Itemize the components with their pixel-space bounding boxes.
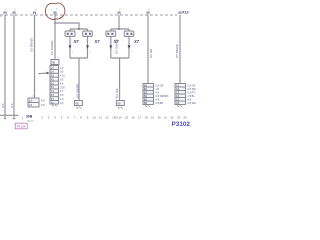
annotation arrow pointing at connector block	[39, 72, 50, 75]
wire labels bottom-left block	[41, 100, 45, 108]
connector X7 d	[124, 31, 134, 36]
wire W1 end tick	[4, 118, 7, 120]
merge bus pair 2	[111, 57, 129, 59]
svg-text:C6: C6	[176, 101, 180, 105]
connector block bottom-left (2 pins)	[28, 98, 39, 107]
svg-text:B1: B1	[144, 84, 148, 88]
svg-text:C5: C5	[176, 98, 180, 102]
svg-text:17: 17	[138, 116, 142, 120]
svg-text:B5: B5	[144, 98, 148, 102]
wire direction arrow c	[109, 45, 112, 49]
node C junction dot	[118, 28, 120, 30]
svg-text:0.5 BR/GE: 0.5 BR/GE	[175, 44, 179, 58]
svg-text:X7: X7	[133, 39, 140, 44]
svg-text:C1: C1	[176, 84, 180, 88]
svg-text:0.5: 0.5	[10, 103, 14, 107]
wire branch to X7 pair 1	[55, 23, 79, 29]
connector X7 b	[83, 31, 93, 36]
chevrons under block A	[145, 105, 150, 107]
pin ids block A	[144, 84, 148, 106]
wire W2 end tick	[13, 118, 16, 120]
terminal T1 on boundary	[4, 12, 6, 14]
wire W8 to connector block A	[147, 15, 149, 84]
bottom boundary line (left segment)	[0, 114, 19, 116]
stub to X7 d	[128, 29, 130, 31]
svg-text:15: 15	[125, 116, 129, 120]
wire direction arrow d	[128, 45, 131, 49]
terminal T7 on boundary (X11)	[179, 12, 181, 14]
wire W2	[13, 15, 15, 119]
terminal T2 on boundary	[13, 12, 15, 14]
wire below X7 d	[128, 36, 130, 58]
connector X7 c	[106, 31, 116, 36]
left connector top pin box	[51, 60, 59, 65]
svg-text:12: 12	[29, 99, 33, 103]
svg-text:22: 22	[170, 116, 174, 120]
svg-text:13: 13	[29, 103, 33, 107]
red correction ellipse annotation	[45, 3, 65, 19]
svg-text:0.5 SW/GE: 0.5 SW/GE	[50, 40, 54, 55]
connector block X4 (left, multi pin)	[50, 66, 59, 105]
svg-text:P3104: P3104	[17, 125, 26, 129]
wire W5 feed to X7 pair 2	[118, 15, 120, 29]
stub to X7 b	[87, 29, 89, 31]
wire labels block B	[188, 85, 197, 106]
wire colour labels (rotated)	[1, 38, 179, 108]
svg-text:B2: B2	[144, 87, 148, 91]
svg-text:05.03: 05.03	[27, 119, 34, 123]
chevrons under S1	[76, 107, 81, 109]
svg-text:0.5 BR: 0.5 BR	[156, 102, 164, 105]
connector block A (right, multi pin)	[143, 84, 154, 105]
stub to X7 c	[110, 29, 112, 31]
wire below X7 c	[110, 36, 112, 58]
chevrons under block B	[177, 105, 182, 107]
pin numbers below arrows	[72, 51, 133, 54]
svg-text:B3: B3	[144, 91, 148, 95]
wire below X7 a	[69, 36, 71, 58]
svg-text:19: 19	[151, 116, 155, 120]
merge bus pair 1	[70, 57, 88, 59]
splice connector S1	[74, 101, 82, 106]
wire below X7 b	[87, 36, 89, 58]
svg-text:4.6: 4.6	[41, 100, 45, 103]
chevrons under block X4	[52, 105, 57, 107]
svg-text:14: 14	[118, 116, 122, 120]
svg-text:X13: X13	[182, 10, 189, 14]
splice connector S2	[116, 101, 124, 106]
node B junction dot	[78, 28, 80, 30]
svg-text:0.5 GR: 0.5 GR	[149, 49, 153, 58]
svg-text:11: 11	[99, 116, 102, 120]
wire direction arrow a	[69, 45, 72, 49]
svg-text:0.5: 0.5	[1, 103, 5, 107]
pin ids bottom-left block	[29, 99, 33, 108]
wire W6 merged pair 1	[78, 58, 80, 101]
node A junction dot	[54, 22, 56, 24]
svg-text:0.5 SW/WS: 0.5 SW/WS	[114, 39, 118, 54]
wire labels at block X4	[60, 67, 65, 105]
svg-text:0.5 SW/BR: 0.5 SW/BR	[75, 84, 79, 98]
wire W4 from circled terminal	[54, 14, 56, 60]
page reference box P3104	[15, 123, 27, 129]
stub to X7 a	[69, 29, 71, 31]
svg-text:06: 06	[117, 102, 121, 106]
wire W3 to connector X4	[34, 15, 36, 98]
svg-text:30B: 30B	[26, 114, 33, 118]
svg-text:4.10: 4.10	[60, 75, 65, 78]
wire W7 merged pair 2	[119, 58, 121, 101]
wire W1 (left battery feed)	[4, 15, 6, 119]
terminal T6 on boundary	[147, 12, 149, 14]
terminal T4 on boundary (circled)	[54, 12, 56, 14]
chevrons under S2	[118, 107, 123, 109]
svg-text:16: 16	[131, 116, 135, 120]
terminal pin numbers	[5, 9, 150, 12]
labels X7	[73, 39, 140, 44]
svg-text:20: 20	[157, 116, 161, 120]
terminal T3 on boundary	[34, 12, 36, 14]
wire direction arrow b	[86, 45, 89, 49]
svg-text:06: 06	[76, 102, 80, 106]
wire labels block A	[156, 85, 169, 106]
svg-text:C2: C2	[176, 87, 180, 91]
svg-text:C4: C4	[176, 94, 180, 98]
svg-text:X7: X7	[94, 39, 101, 44]
wire W9 to connector block B	[179, 15, 181, 84]
svg-text:12: 12	[105, 116, 109, 120]
splitter bus pair 2	[111, 28, 129, 30]
svg-text:B6: B6	[144, 101, 148, 105]
grid coordinate numbers	[22, 116, 187, 120]
svg-text:18: 18	[144, 116, 148, 120]
svg-text:0.5 BR/WS: 0.5 BR/WS	[30, 38, 34, 52]
svg-text:B4: B4	[144, 94, 148, 98]
svg-text:X7: X7	[73, 39, 80, 44]
svg-text:24: 24	[183, 116, 187, 120]
svg-text:23: 23	[177, 116, 181, 120]
svg-text:10: 10	[92, 116, 96, 120]
connector X7 a	[65, 31, 75, 36]
top dashed boundary line	[0, 14, 177, 16]
terminal T5 on boundary	[118, 12, 120, 14]
svg-text:4.8: 4.8	[41, 104, 45, 107]
svg-text:0.5 WS: 0.5 WS	[188, 102, 197, 105]
splitter bus pair 1	[70, 28, 88, 30]
svg-text:P3102: P3102	[172, 121, 191, 128]
pin ids block B	[176, 84, 180, 106]
svg-text:C3: C3	[176, 91, 180, 95]
svg-text:0.35: 0.35	[60, 86, 65, 89]
pin ids in block X4	[51, 68, 55, 105]
svg-text:(30): (30)	[113, 116, 118, 120]
svg-text:21: 21	[164, 116, 168, 120]
connector block B (right, multi pin)	[175, 84, 186, 105]
